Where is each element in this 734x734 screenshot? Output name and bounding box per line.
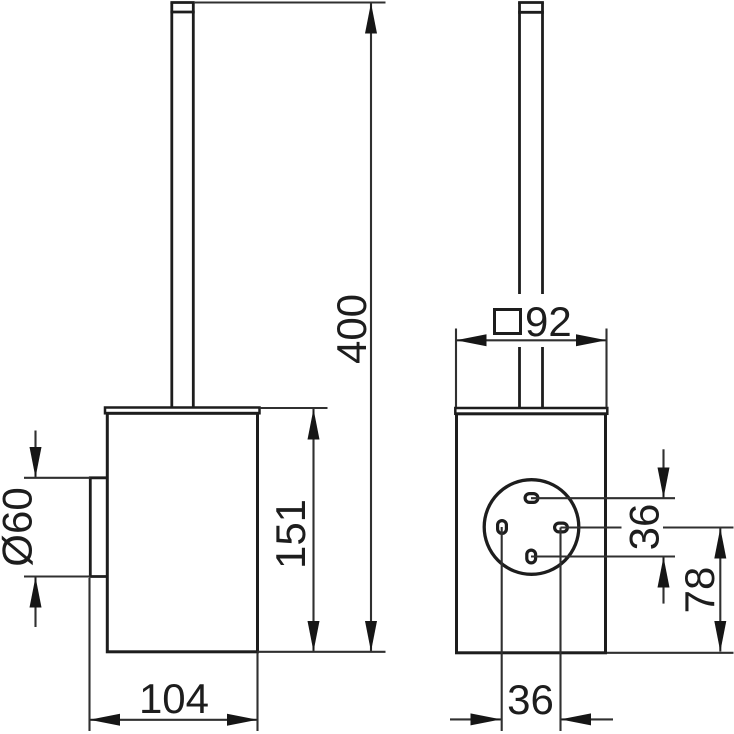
- dimension 151: dimension line: [312, 409, 314, 652]
- svg-text:36: 36: [507, 676, 554, 723]
- dimension 400: extension line (top, from rod): [195, 1, 386, 3]
- container body (side view): [107, 413, 257, 652]
- dimension 36 (right): dimension line tails: [662, 449, 664, 603]
- container body (front view): [457, 414, 606, 653]
- dimension 78: arrowheads: [714, 528, 726, 652]
- svg-text:78: 78: [676, 567, 723, 614]
- dimension D60: extension lines: [24, 478, 90, 577]
- leader line from bottom slot (36 lower extension): [531, 555, 675, 557]
- svg-text:Ø60: Ø60: [0, 487, 41, 566]
- mounting hole slot bottom: [527, 550, 536, 563]
- dimension 104: extension line (left, below bracket): [88, 578, 90, 731]
- dimension 78: extension line (bottom, from container): [607, 652, 734, 654]
- dimension 78: dimension line: [719, 528, 721, 652]
- dimension 36 (bottom): arrowheads: [471, 713, 592, 725]
- mounting hole slot right: [555, 523, 568, 532]
- dimension 400: extension line (bottom, shared with 151): [257, 651, 385, 653]
- dimension 104: extension line (right, below container): [256, 653, 258, 731]
- dimension 104: arrowheads: [90, 714, 258, 726]
- svg-text:36: 36: [621, 504, 668, 551]
- svg-text:400: 400: [328, 294, 375, 364]
- dimension []92: dimension line: [456, 339, 607, 341]
- dimension []92: arrowheads: [456, 334, 607, 346]
- leader line from right slot (78 top extension): [561, 526, 734, 528]
- svg-text:151: 151: [267, 499, 314, 569]
- dimension 36 (right): arrowheads: [658, 468, 670, 588]
- mounting plate circle (front view): [484, 480, 579, 575]
- dimension D60: arrowheads: [30, 447, 42, 608]
- dimension 151: extension line (top, from lid): [260, 407, 328, 409]
- brush handle rod (side view, left): [170, 3, 194, 408]
- mounting hole slot left: [498, 521, 507, 534]
- leader line down from right slot: [559, 528, 561, 732]
- dimension 400: dimension line: [370, 3, 372, 652]
- mounting hole slot top: [525, 494, 538, 503]
- svg-text:104: 104: [139, 675, 209, 722]
- lid plate (front view): [455, 408, 607, 414]
- lid plate (side view): [105, 408, 260, 414]
- dimension []92: extension lines: [456, 329, 607, 408]
- dimension D60: dimension line tails: [34, 431, 36, 628]
- svg-text:92: 92: [525, 298, 572, 345]
- leader line from top slot (36 upper extension): [531, 497, 675, 499]
- dimension 151: arrowheads: [308, 409, 320, 652]
- dimension 36 (bottom): dimension line tails: [450, 718, 613, 720]
- brush handle rod (front view, right): [518, 3, 544, 408]
- dimension 400: arrowheads: [365, 3, 377, 652]
- dimension []92: square symbol: [495, 310, 521, 334]
- wall bracket (side view): [89, 478, 107, 577]
- leader line down from left slot: [501, 527, 503, 731]
- dimension 104: dimension line: [90, 719, 258, 721]
